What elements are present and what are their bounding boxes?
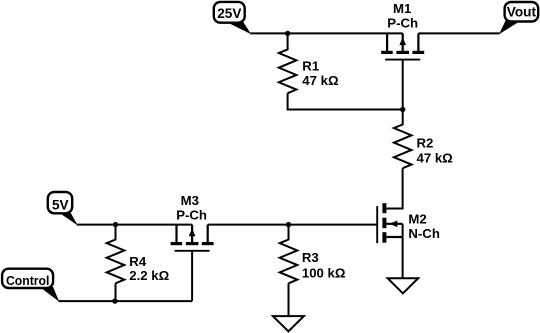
svg-text:R4: R4 xyxy=(129,254,147,269)
callout 5V xyxy=(48,192,78,226)
svg-text:P-Ch: P-Ch xyxy=(176,207,207,222)
svg-text:P-Ch: P-Ch xyxy=(387,16,418,31)
wire: R2 bottom to M2 drain xyxy=(386,168,402,208)
svg-text:100 kΩ: 100 kΩ xyxy=(302,265,346,280)
wire: M2 source to ground xyxy=(402,224,404,278)
resistor R3 xyxy=(280,225,298,284)
callout Vout xyxy=(499,2,538,34)
callout Control xyxy=(2,269,59,302)
svg-text:25V: 25V xyxy=(217,6,241,21)
svg-text:Vout: Vout xyxy=(507,5,537,20)
svg-text:47 kΩ: 47 kΩ xyxy=(417,150,454,165)
resistor R1 xyxy=(279,33,297,93)
node: Control wire / R4 junction xyxy=(112,298,117,303)
wire: R4 bottom to Control wire xyxy=(115,283,117,301)
wire: R3 bottom to ground xyxy=(288,283,290,316)
ground (R3) xyxy=(273,316,304,331)
svg-text:N-Ch: N-Ch xyxy=(408,226,440,241)
svg-text:M3: M3 xyxy=(181,193,199,208)
svg-text:R2: R2 xyxy=(417,136,434,151)
node: mid rail / R3 junction xyxy=(286,222,291,227)
svg-text:Control: Control xyxy=(6,273,50,288)
ground (M2 source) xyxy=(388,278,419,293)
svg-text:M1: M1 xyxy=(393,1,411,16)
node: 5V rail / R4 junction xyxy=(113,222,118,227)
transistor M3 P-Ch MOSFET xyxy=(171,225,214,302)
wire: M3 drain to M2 gate xyxy=(208,224,378,226)
svg-text:5V: 5V xyxy=(52,198,69,213)
wire: R1 bottom to M1 gate node xyxy=(288,93,403,109)
transistor M1 P-Ch MOSFET xyxy=(381,33,424,109)
svg-text:2.2 kΩ: 2.2 kΩ xyxy=(129,268,169,283)
callout 25V xyxy=(214,2,251,34)
transistor M2 N-Ch MOSFET xyxy=(377,203,402,243)
wire: 25V to M1 source/body (top rail left) xyxy=(250,32,402,34)
wire: 5V to M3 source/body xyxy=(77,224,192,226)
resistor R4 xyxy=(107,225,125,284)
wire: M1 drain to Vout (top rail right) xyxy=(418,32,499,34)
resistor R2 xyxy=(394,110,412,169)
node: R1 / M1 gate / R2 junction xyxy=(400,107,405,112)
svg-text:M2: M2 xyxy=(408,211,426,226)
svg-text:R3: R3 xyxy=(302,250,319,265)
svg-text:47 kΩ: 47 kΩ xyxy=(302,73,339,88)
svg-text:R1: R1 xyxy=(302,59,319,74)
wire: Control to M3 gate xyxy=(59,300,193,302)
node: top rail / R1 junction xyxy=(285,31,290,36)
